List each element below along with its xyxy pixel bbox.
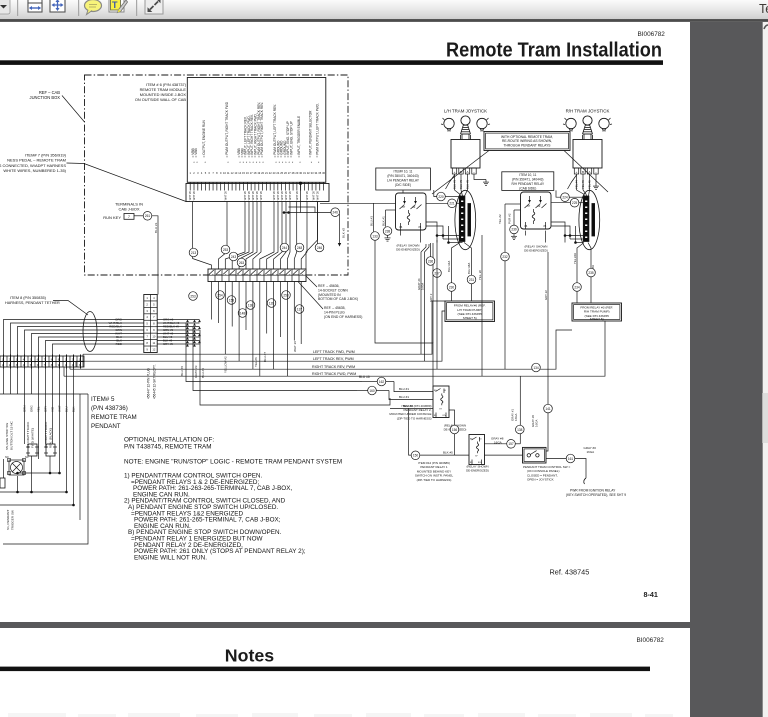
pendant terminal strip (2 rows) xyxy=(0,355,84,369)
switch S5 eng stop xyxy=(5,421,14,450)
module signal name labels (rotated) xyxy=(191,101,320,165)
tether wires right of plug with color codes xyxy=(157,318,199,347)
caption relay shown de-energized (R) xyxy=(524,245,548,253)
R/H pendant relay connector (black) xyxy=(579,190,600,249)
gray desk background right of page xyxy=(690,22,762,717)
label: ITEM 2 pendant relay 2 xyxy=(389,404,431,421)
wire nodes 221 220 xyxy=(426,190,459,208)
svg-text:BI006782: BI006782 xyxy=(637,637,665,644)
wire BLU #3 to node 133 xyxy=(320,203,396,232)
label: pendant tram control sw xyxy=(523,465,570,482)
wire node 138 xyxy=(516,425,525,434)
optional remote tram note box xyxy=(484,132,570,151)
fit-page icon xyxy=(50,0,65,12)
module pin numbers row xyxy=(189,171,325,175)
wire nodes 234 235 xyxy=(573,268,596,291)
node 133 long wire down to relay 2 xyxy=(371,232,433,386)
svg-text:Notes: Notes xyxy=(225,646,275,666)
wire node 161 and pwr wire xyxy=(546,454,586,484)
node 239 with ground xyxy=(510,225,519,239)
toolbar xyxy=(0,0,768,19)
R/H joystick pin wires xyxy=(575,174,597,190)
separator xyxy=(17,0,18,16)
wires below L connector to FROM RELAY 6 box xyxy=(447,243,471,302)
FROM RELAY 6 box xyxy=(445,301,495,322)
svg-text:Ref. 438745: Ref. 438745 xyxy=(550,568,590,577)
svg-text:Remote Tram Installation: Remote Tram Installation xyxy=(446,39,662,61)
wire relay 1 to control switch xyxy=(485,454,523,456)
staircase wires strip-up-to-bundle xyxy=(4,320,145,357)
label: R/H pendant relay xyxy=(502,172,554,191)
label: ITEM 8 harness pendant tether xyxy=(5,296,88,315)
switch S1 aux box xyxy=(0,478,15,530)
terminal strip wire color labels xyxy=(189,191,320,201)
wire number nodes above connector xyxy=(189,243,324,267)
label: REF - CAB JUNCTION BOX xyxy=(30,90,85,122)
dropdown button xyxy=(0,0,10,14)
node 232 long wire down xyxy=(501,252,510,369)
relay 2 output wire down to relay 1 xyxy=(449,410,455,455)
pendant internal wiring xyxy=(0,394,75,506)
scroll panel icon xyxy=(764,25,768,29)
wire strip to battery BLK #2 xyxy=(283,183,331,214)
switch S3 right track rev xyxy=(44,421,57,456)
labels GRAY #1 16GA columns xyxy=(511,409,539,427)
joystick wires into R connector xyxy=(568,175,590,196)
wire number nodes below connector xyxy=(189,291,304,318)
caption relay 1 shown de-energized xyxy=(466,465,489,473)
faint next page text top sliver xyxy=(8,713,673,717)
wire nodes 236 237 xyxy=(426,240,441,369)
svg-text:Te: Te xyxy=(759,2,768,16)
label: ITEM 5 remote tram pendant xyxy=(91,396,137,430)
label: 14-socket conn xyxy=(306,276,358,301)
pendant tram control switch xyxy=(523,447,547,463)
PWM labels xyxy=(312,350,356,376)
cable sheath ellipse xyxy=(83,312,97,352)
gray wire column from PWM row 4 xyxy=(519,376,521,444)
terminal strip in J-box xyxy=(186,182,329,202)
wire node 246 xyxy=(331,208,346,247)
wire BLU #6 third into relay 2 xyxy=(390,404,433,408)
leader to L/H pendant connector xyxy=(432,151,489,195)
run key terminal 7 xyxy=(103,214,134,221)
label: ITEM 7 pendant adapter harness xyxy=(0,153,186,202)
label: 14-pin plug xyxy=(298,282,362,319)
label: L/H pendant relay xyxy=(376,168,431,193)
caption relay 2 shown de-energized xyxy=(444,424,467,432)
fullscreen icon xyxy=(145,0,163,14)
wire node 150 xyxy=(411,450,469,459)
wire nodes 230 231 xyxy=(447,275,476,291)
R/H pendant relay (item 10,11) xyxy=(521,192,552,229)
wire PUR #2 to node 239 and ground (R side) xyxy=(508,210,521,225)
relay L output wires and junctions xyxy=(401,222,463,244)
comment bubble icon xyxy=(85,0,102,15)
ground L/H joystick xyxy=(483,180,489,186)
pendant tether wires (8) left of plug xyxy=(109,318,123,347)
label: terminals in cab j-box xyxy=(115,202,143,212)
relay R output wires and junctions xyxy=(526,222,584,244)
caption relay shown de-energized (L) xyxy=(396,244,420,252)
notes rule xyxy=(0,667,650,672)
notes text block xyxy=(124,437,342,562)
remote tram module ITEM 6 box xyxy=(187,78,325,183)
scrollbar thumb xyxy=(763,393,768,443)
lower mesh wires to relay 2 xyxy=(186,323,390,406)
separator xyxy=(136,0,137,16)
remote tram pendant enclosure xyxy=(0,394,88,544)
FROM RELAY 3 box xyxy=(572,303,622,321)
ground R/H joystick xyxy=(593,184,599,190)
vertical wire color labels below connector xyxy=(180,341,297,378)
L/H tram joystick xyxy=(441,109,490,175)
gray gap between page 1 and page 2 xyxy=(0,622,690,628)
cab junction box boundary (dash-dot) xyxy=(85,75,349,275)
wire BLK #1 to node 238 and ground xyxy=(381,210,395,227)
R/H tram joystick xyxy=(563,109,612,175)
pendant relay 2 xyxy=(433,386,449,418)
switch S4 right track fwd xyxy=(26,421,39,456)
PWM wire source stubs on left xyxy=(64,354,83,376)
wire BLU #6 elbow down to relay 1 input xyxy=(409,408,412,455)
pendant relay 1 xyxy=(469,435,485,465)
node 238 with ground xyxy=(383,227,392,241)
wire node 134 xyxy=(532,363,541,372)
junction arrows right of plug xyxy=(186,320,201,347)
wire relay 1 to node 157 to gray column xyxy=(485,440,521,449)
svg-text:BI006782: BI006782 xyxy=(638,31,666,38)
label: 456447 12-pin plug / 456445 12-skt recpt (rotated) xyxy=(146,364,156,399)
gray wire columns (L) xyxy=(417,243,433,361)
svg-text:T: T xyxy=(112,0,118,10)
wires 14-pin connector to track/pendant mesh xyxy=(212,282,302,377)
svg-text:8-41: 8-41 xyxy=(644,590,658,599)
joystick wires into L connector xyxy=(446,175,468,196)
switch S2 trigger rotary xyxy=(5,456,29,475)
wire node 261 run key xyxy=(134,212,152,221)
label GRAY #8 16GA near relay 1 xyxy=(491,437,504,445)
gray wire column 2 from PWM row 3 xyxy=(546,369,548,451)
wires below R connector to FROM RELAY 3 box xyxy=(573,243,595,304)
wires from terminal strip to 14-pin connector xyxy=(193,202,318,270)
wire YEL #2 to node 232 (R side) xyxy=(498,204,521,252)
scrollbar lane xyxy=(762,22,768,717)
label: ITEM 6 remote tram module xyxy=(135,82,187,102)
text highlight tool icon xyxy=(109,0,128,13)
fit-width icon xyxy=(28,0,42,12)
L/H joystick pin wires xyxy=(453,174,487,190)
leader to R/H pendant connector xyxy=(564,151,608,193)
staircase wires strip-down-into-pendant xyxy=(4,369,74,395)
wire node 141 xyxy=(544,404,553,413)
12-pin plug connector xyxy=(144,295,157,353)
L/H pendant relay connector (black) xyxy=(455,190,476,249)
pendant internal wire labels xyxy=(23,405,76,412)
PWM track wires (4 rows) xyxy=(64,301,605,376)
label: ITEM 12 pendant relay 1 xyxy=(415,461,454,482)
yellow/gray wire columns (R) xyxy=(478,235,548,376)
wire node 160 xyxy=(357,386,433,399)
wire nodes 224 225 xyxy=(552,190,584,207)
label GRAY #0 16GA right xyxy=(584,446,597,454)
L/H pendant relay (item 10,11) xyxy=(396,193,427,230)
title rule xyxy=(0,60,663,65)
wire run key down to 12-pin plug xyxy=(152,216,158,295)
label: pwr from ignition relay xyxy=(566,489,626,497)
separator xyxy=(78,0,79,16)
wire BLU #6 node 162 xyxy=(359,375,433,392)
wire node 156 xyxy=(450,425,459,434)
14-pin connector (bottom of J-box) xyxy=(208,269,306,282)
